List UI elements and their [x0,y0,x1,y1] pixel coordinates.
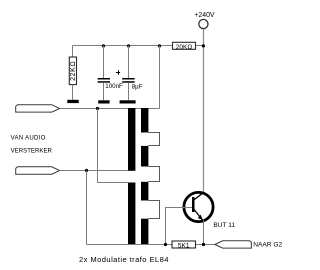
transformer T secondary winding segment 1 [141,108,148,133]
wire riser to 20K junction [159,46,161,109]
transformer tap B (series link between trafo1/trafo2) [148,167,159,182]
svg-text:VERSTERKER: VERSTERKER [11,147,53,154]
connector arrow output NAAR G2 [215,241,252,248]
transformer T secondary winding segment 3 [141,182,148,201]
wire base lead [166,208,193,245]
capacitor C 8µF (electrolytic, + mark) [116,46,143,104]
wire input2 to primary1 bottom [60,170,129,172]
wire riser down to primary 2 top [98,109,129,183]
wire input1 to transformer top [60,108,160,110]
svg-text:8µF: 8µF [132,83,143,90]
node junction top rail at 8uF [127,44,130,47]
emitter diagonal [194,209,203,220]
resistor 5K1 [172,241,196,250]
transistor Q1 BUT 11 [184,192,236,244]
node junction input2/riser [85,169,88,172]
wire riser input2 down to bottom rail [86,171,88,245]
capacitor C 100nF [98,46,123,104]
base bar [192,197,195,212]
wire bottom rail [87,244,215,246]
emitter lead down [203,220,205,244]
terminal +240V [199,19,208,28]
transformer T primary winding 1 (left bar top) [128,108,135,171]
node junction on top rail at 20K right [202,44,205,47]
node junction input1/riser-down [96,107,99,110]
wire +240V vertical / collector feed [203,29,205,194]
transformer tap A (between sec seg1/seg2) [148,133,159,146]
svg-text:VAN AUDIO: VAN AUDIO [11,134,46,141]
svg-text:22KΩ: 22KΩ [70,61,77,81]
emitter arrowhead [198,215,203,220]
svg-text:100nF: 100nF [105,83,123,90]
transformer T primary winding 2 (left bar bottom) [128,183,135,245]
resistor 22KΩ with lead and chassis bar [67,46,78,104]
circle [184,192,213,221]
svg-text:+240V: +240V [194,12,215,19]
node junction top rail at 100nF [102,44,105,47]
node junction top rail at riser [158,44,161,47]
svg-text:2x Modulatie trafo EL84: 2x Modulatie trafo EL84 [79,255,169,264]
svg-text:NAAR G2: NAAR G2 [253,242,282,249]
node junction base riser / bottom rail [164,243,167,246]
transformer T secondary winding segment 2 [141,146,148,167]
svg-text:20KΩ: 20KΩ [176,44,193,51]
collector diagonal [194,193,203,200]
node junction emitter / bottom rail [202,243,205,246]
transformer T secondary winding segment 4 [141,219,148,245]
wire top rail y=45.6 from 22K corner to +240V line [73,45,204,47]
connector arrow input 2 [16,167,60,174]
svg-text:BUT 11: BUT 11 [213,222,235,229]
connector arrow input 1 [16,105,60,112]
transformer tap C (between sec seg3/seg4) [148,201,159,219]
svg-text:5K1: 5K1 [178,243,190,250]
resistor 20KΩ [173,42,196,51]
